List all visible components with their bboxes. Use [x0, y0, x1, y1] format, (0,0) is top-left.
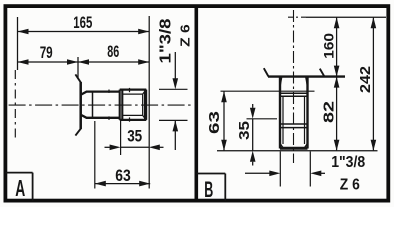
shaft B flange line	[268, 75, 345, 77]
dim 35B top extension line	[247, 118, 278, 120]
dim line 165	[18, 31, 150, 33]
panel divider line	[195, 6, 199, 201]
shaft B lower feature lines	[280, 123, 308, 125]
shaft A flange face line	[79, 82, 82, 129]
panel B top reference line	[288, 16, 306, 18]
dim 63 left extension line	[94, 121, 96, 189]
svg-text:86: 86	[107, 42, 119, 61]
dim 1"3/8 B extension lines	[279, 152, 281, 187]
dim line 35 outside arrows	[105, 146, 110, 148]
panel B bottom baseline	[217, 150, 378, 152]
shaft A section1 bottom edge with chamfer	[82, 115, 121, 118]
shaft A section2 bottom edge	[120, 119, 147, 121]
panel A left center mark	[14, 70, 16, 140]
dim line 35B outside arrows	[252, 104, 254, 108]
svg-text:Z 6: Z 6	[340, 177, 360, 194]
dim line 79-86	[18, 61, 150, 63]
shaft A thread tick section2	[129, 88, 131, 92]
shaft B right edge	[306, 77, 308, 149]
panel B vertical centerline	[293, 10, 295, 163]
svg-text:63: 63	[207, 111, 223, 134]
svg-text:A: A	[15, 175, 25, 201]
svg-text:35: 35	[237, 121, 253, 140]
shaft B bottom chamfers	[280, 144, 283, 149]
dim line 63B	[223, 91, 225, 151]
shaft B left edge	[279, 77, 281, 149]
dim 63B top extension line	[221, 90, 315, 92]
shaft B groove lines	[280, 92, 308, 94]
shaft A section2 top edge	[120, 88, 147, 90]
shaft B top chamfers	[280, 77, 282, 86]
dim line 63	[95, 183, 150, 185]
dim 165 left extension line	[17, 17, 19, 70]
shaft B flange break wing right	[320, 69, 324, 77]
shaft A section1 top edge with chamfer	[82, 92, 121, 95]
svg-text:165: 165	[73, 14, 92, 32]
dim 165/86/63 right extension line	[148, 16, 150, 189]
svg-text:1"3/8: 1"3/8	[331, 154, 365, 171]
shaft A step lines	[119, 90, 121, 120]
svg-text:82: 82	[321, 101, 337, 123]
svg-text:79: 79	[40, 43, 53, 62]
shaft A flange break wing bottom	[75, 128, 81, 135]
svg-text:242: 242	[358, 66, 374, 93]
svg-text:160: 160	[322, 33, 337, 59]
shaft A thread minor lines	[122, 93, 143, 95]
dim line 1"3/8 B outside arrows	[245, 172, 270, 174]
svg-text:B: B	[204, 177, 213, 202]
svg-text:1"3/8: 1"3/8	[158, 18, 175, 63]
shaft A end cap	[144, 90, 147, 120]
shaft A end chamfer	[142, 94, 144, 115]
extension line at flange face for 79/86 split	[77, 57, 79, 79]
view label box A	[5, 172, 32, 174]
shaft B bottom cap	[280, 147, 308, 150]
shaft A flange break wing top	[75, 74, 81, 82]
shaft A thread tick section1	[108, 90, 110, 93]
dim 35 left extension (step)	[120, 121, 122, 155]
outer border frame	[5, 6, 388, 201]
dim line 160/82 shared	[336, 17, 338, 151]
dia dim line with outside arrows	[174, 52, 176, 79]
shaft B flange break wing left	[264, 68, 269, 76]
panel A horizontal centerline	[9, 104, 193, 106]
dim line 242	[372, 17, 374, 151]
view label box B	[196, 173, 225, 175]
svg-text:63: 63	[115, 166, 131, 185]
svg-text:Z 6: Z 6	[177, 24, 192, 47]
svg-text:35: 35	[127, 128, 142, 146]
dia dim extension ticks	[159, 88, 188, 90]
shaft A chamfer line	[92, 92, 94, 118]
shaft B thread minor lines	[282, 97, 284, 144]
